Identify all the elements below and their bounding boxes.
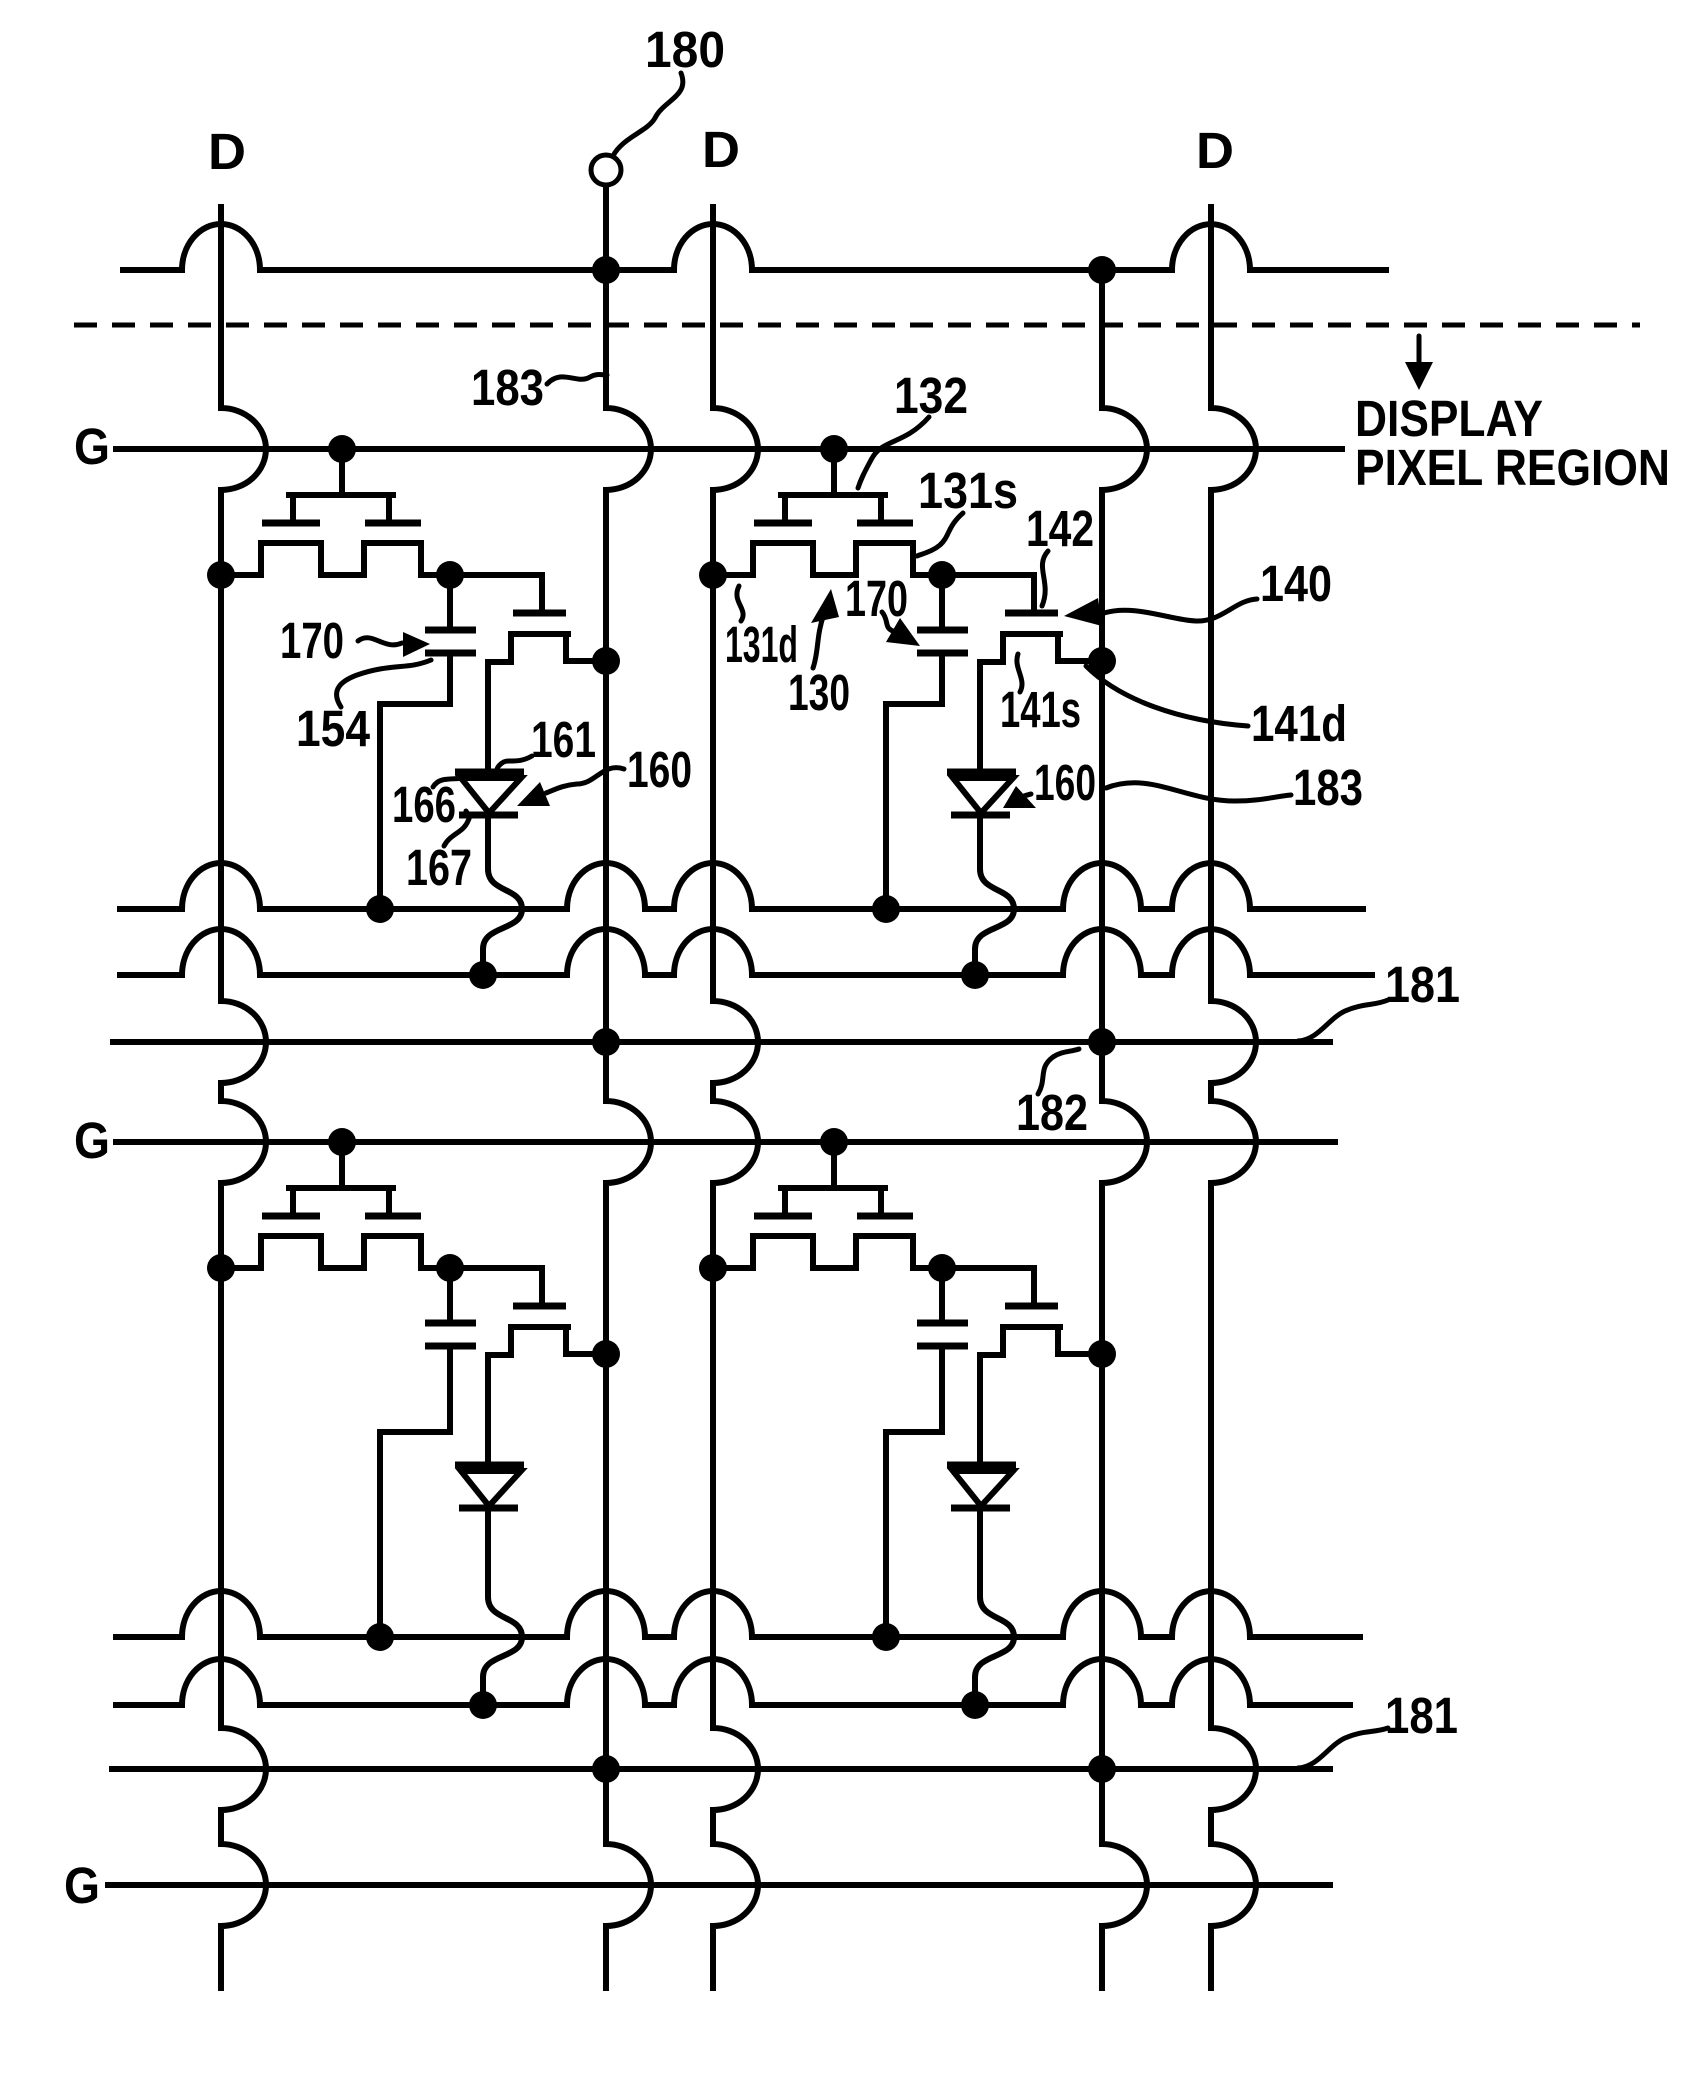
svg-text:141s: 141s [1000, 681, 1081, 738]
svg-text:PIXEL REGION: PIXEL REGION [1355, 439, 1670, 496]
svg-text:142: 142 [1026, 500, 1094, 557]
svg-text:170: 170 [280, 612, 344, 669]
svg-text:181: 181 [1385, 1687, 1458, 1744]
svg-text:167: 167 [406, 839, 472, 896]
svg-text:160: 160 [1034, 754, 1096, 811]
svg-text:141d: 141d [1251, 695, 1347, 752]
svg-text:181: 181 [1385, 956, 1460, 1013]
svg-text:D: D [702, 121, 740, 178]
svg-text:132: 132 [894, 367, 968, 424]
svg-text:G: G [74, 1112, 110, 1169]
svg-text:154: 154 [296, 700, 371, 757]
svg-text:G: G [74, 418, 110, 475]
svg-text:183: 183 [471, 359, 544, 416]
svg-text:180: 180 [645, 21, 725, 78]
svg-text:D: D [208, 123, 246, 180]
svg-text:182: 182 [1016, 1084, 1088, 1141]
svg-text:170: 170 [845, 570, 908, 627]
svg-text:160: 160 [627, 741, 692, 798]
svg-text:130: 130 [788, 664, 850, 721]
svg-text:161: 161 [531, 711, 596, 768]
svg-text:140: 140 [1260, 555, 1332, 612]
svg-text:G: G [64, 1857, 100, 1914]
svg-text:166: 166 [392, 776, 456, 833]
svg-text:131s: 131s [918, 462, 1018, 519]
svg-text:183: 183 [1293, 759, 1363, 816]
svg-text:D: D [1196, 122, 1234, 179]
